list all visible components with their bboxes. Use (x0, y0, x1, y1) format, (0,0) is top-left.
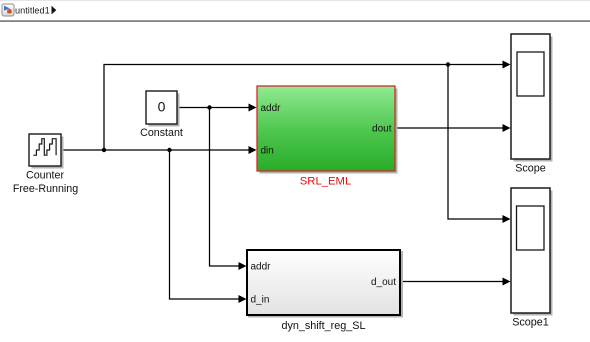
svg-text:untitled1: untitled1 (15, 6, 50, 16)
wire: constant output to SRL addr (177, 107, 250, 109)
block Scope1 shadow (514, 191, 553, 316)
svg-text:addr: addr (251, 262, 272, 273)
junction on top rail (446, 62, 450, 66)
block dyn_shift_reg_SL shadow (248, 251, 403, 318)
wire: top rail down to Scope1 input 1 (448, 65, 504, 220)
counter waveform icon (33, 139, 56, 156)
model icon button (2, 4, 14, 16)
breadcrumb bar separator (0, 20, 590, 21)
wire: SRL dout to Scope input 2 (395, 127, 504, 129)
block Counter Free-Running shadow (32, 137, 64, 169)
wire: branch up to top rail and Scope input 1 (104, 65, 504, 151)
block Constant shadow (149, 94, 180, 127)
svg-text:dyn_shift_reg_SL: dyn_shift_reg_SL (281, 320, 365, 332)
wire: counter branch down to dyn d_in (170, 150, 241, 299)
svg-text:Counter: Counter (26, 170, 64, 182)
block Counter Free-Running (29, 134, 61, 166)
wire: constant branch down to dyn addr (210, 108, 241, 267)
block Constant (146, 91, 177, 124)
svg-text:dout: dout (372, 124, 392, 135)
wire: dyn d_out to Scope1 input 2 (401, 281, 504, 283)
block SRL_EML (257, 86, 395, 171)
svg-text:d_in: d_in (251, 295, 270, 306)
svg-text:Scope1: Scope1 (512, 317, 549, 329)
svg-text:din: din (261, 146, 274, 157)
wire: counter output to SRL din (61, 149, 250, 151)
svg-text:0: 0 (158, 99, 166, 115)
scope1 screen (517, 206, 545, 250)
scope screen (517, 52, 544, 96)
svg-text:Constant: Constant (140, 127, 183, 139)
junction on counter line (branch down to d_in) (167, 148, 171, 152)
svg-text:addr: addr (261, 103, 282, 114)
junction on constant line (207, 105, 211, 109)
block Scope1 (511, 188, 550, 313)
block SRL_EML shadow (260, 89, 398, 174)
svg-text:d_out: d_out (371, 277, 396, 288)
block Scope shadow (514, 37, 553, 162)
block dyn_shift_reg_SL (247, 250, 400, 315)
breadcrumb bar background (0, 0, 590, 20)
svg-text:Scope: Scope (515, 163, 546, 175)
breadcrumb arrow (52, 6, 57, 15)
block Scope (511, 34, 550, 159)
svg-text:Free-Running: Free-Running (13, 183, 78, 195)
junction on counter line (branch up) (102, 148, 106, 152)
svg-text:SRL_EML: SRL_EML (300, 176, 352, 188)
